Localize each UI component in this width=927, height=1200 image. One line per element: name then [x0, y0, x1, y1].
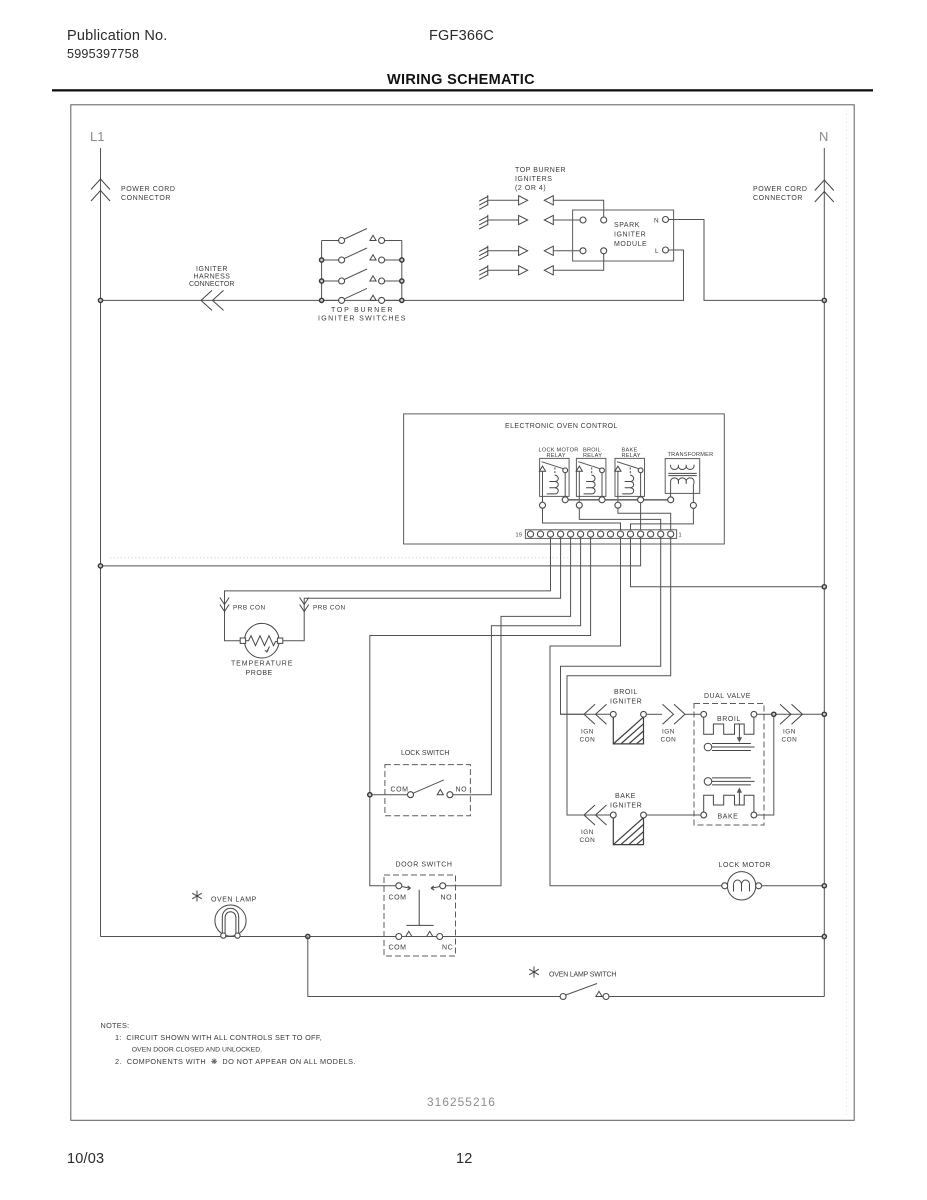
wire broil relay NO to terminal 14: [579, 508, 660, 530]
svg-text:RELAY: RELAY: [547, 453, 566, 459]
wire N bus vertical: [823, 148, 825, 997]
svg-text:NOTES:: NOTES:: [101, 1021, 130, 1030]
svg-text:CON: CON: [661, 737, 677, 744]
svg-text:LOCK SWITCH: LOCK SWITCH: [401, 750, 450, 757]
svg-text:IGNITER SWITCHES: IGNITER SWITCHES: [318, 316, 406, 323]
svg-text:IGNITER: IGNITER: [614, 232, 646, 239]
svg-text:BAKE: BAKE: [718, 814, 739, 821]
svg-text:TOP BURNER: TOP BURNER: [515, 167, 566, 174]
svg-text:IGN: IGN: [662, 729, 675, 736]
svg-text:COM: COM: [389, 945, 407, 952]
wire chevron to bake igniter: [567, 814, 610, 816]
wire lock motor to N bus: [762, 885, 825, 887]
wire broil igniter to connector: [646, 713, 662, 715]
scan artifact vertical: [846, 110, 848, 1118]
svg-text:LOCK MOTOR: LOCK MOTOR: [719, 862, 771, 869]
dual valve box: [694, 704, 764, 826]
wire terminal 15 to bake igniter row: [567, 537, 671, 815]
door switch plunger: [406, 890, 433, 926]
top burner igniter row 3: [479, 246, 580, 260]
svg-text:DOOR SWITCH: DOOR SWITCH: [396, 862, 453, 869]
broil igniter connector right: [663, 704, 686, 724]
wire bake igniter to valve: [646, 814, 700, 816]
svg-text:L1: L1: [90, 129, 104, 144]
svg-text:TOP BURNER: TOP BURNER: [331, 307, 393, 314]
wire lock relay NO to terminal 10: [543, 508, 621, 530]
svg-text:BROIL: BROIL: [614, 689, 638, 696]
probe connector right: [300, 598, 309, 612]
junction lamp line / N bus: [822, 934, 826, 938]
svg-text:SPARK: SPARK: [614, 222, 640, 229]
svg-text:ELECTRONIC OVEN CONTROL: ELECTRONIC OVEN CONTROL: [505, 423, 618, 430]
svg-text:FGF366C: FGF366C: [429, 28, 494, 44]
svg-text:TEMPERATURE: TEMPERATURE: [231, 661, 293, 668]
bake valve solenoid: [701, 787, 757, 817]
wire module N to N bus: [669, 220, 825, 301]
svg-text:1: 1: [679, 533, 682, 539]
svg-text:2. COMPONENTS WITH ❋ DO NOT: 2. COMPONENTS WITH ❋ DO NOT APPEAR ON AL…: [115, 1057, 356, 1066]
svg-text:POWER CORD: POWER CORD: [121, 186, 176, 193]
relay K1 lock motor relay: [539, 458, 569, 502]
bus terminal transformer left: [668, 497, 674, 503]
svg-text:NC: NC: [442, 945, 453, 952]
wire terminal 11 to N bus: [631, 537, 825, 587]
bus junctions of igniter switches: [320, 258, 404, 303]
wire lamp switch to N bus: [609, 996, 824, 998]
junction lamp switch tap: [306, 934, 310, 938]
wire lock switch COM to t7 riser: [370, 794, 408, 796]
svg-text:NO: NO: [456, 787, 468, 794]
svg-text:1: CIRCUIT SHOWN WITH ALL CON: 1: CIRCUIT SHOWN WITH ALL CONTROLS SET T…: [115, 1033, 322, 1042]
relay K3 bake relay: [615, 458, 645, 502]
svg-text:N: N: [654, 218, 659, 225]
switch row 3: [339, 269, 385, 284]
svg-text:IGNITERS: IGNITERS: [515, 176, 552, 183]
svg-text:PRB CON: PRB CON: [313, 605, 346, 612]
terminal broil relay NO: [576, 502, 582, 508]
svg-text:COM: COM: [391, 787, 409, 794]
wire terminal 5 to door switch NO: [446, 537, 571, 886]
svg-text:(2 OR 4): (2 OR 4): [515, 185, 546, 192]
junction lock COM: [368, 793, 372, 797]
lock switch S1: [391, 780, 468, 798]
junction lock motor / N: [822, 884, 826, 888]
wire terminal 10 to lock motor: [550, 537, 722, 886]
junction terminal12/L1: [98, 564, 102, 568]
svg-text:PROBE: PROBE: [246, 670, 273, 677]
transformer T1: [665, 459, 700, 503]
bus terminal lock relay common: [562, 497, 568, 503]
wire terminal 14 to broil igniter row: [561, 537, 661, 714]
wire lamp switch loop: [308, 937, 560, 997]
door switch lower contacts: [389, 931, 454, 951]
svg-text:WIRING SCHEMATIC: WIRING SCHEMATIC: [387, 72, 535, 88]
lock switch box: [385, 765, 471, 816]
terminal bake relay NO: [615, 502, 621, 508]
svg-text:CONNECTOR: CONNECTOR: [189, 281, 235, 288]
terminal strip: [525, 530, 676, 539]
bus terminal bake relay common: [638, 497, 644, 503]
svg-text:CONNECTOR: CONNECTOR: [753, 195, 803, 202]
top burner igniter row 4: [479, 254, 604, 279]
svg-text:OVEN LAMP: OVEN LAMP: [211, 897, 257, 904]
junction L1/main: [98, 298, 102, 302]
svg-text:RELAY: RELAY: [622, 453, 641, 459]
asterisk oven lamp switch: [529, 967, 539, 978]
wire chevron to broil igniter: [561, 713, 611, 715]
wire bus to terminal 12: [640, 503, 642, 530]
lock motor M1: [722, 872, 762, 900]
broil valve solenoid: [701, 711, 757, 742]
svg-text:IGN: IGN: [581, 729, 594, 736]
wire terminal 12 to L1 bus: [101, 537, 641, 566]
junction terminal11/N: [822, 585, 826, 589]
svg-text:5995397758: 5995397758: [67, 47, 139, 61]
oven lamp line: [101, 936, 825, 938]
probe connector left: [220, 598, 229, 612]
svg-text:CON: CON: [580, 737, 596, 744]
svg-text:N: N: [819, 129, 828, 144]
svg-text:POWER CORD: POWER CORD: [753, 186, 808, 193]
wire L1 main horizontal: [101, 250, 684, 300]
wire connector to broil valve: [685, 713, 701, 715]
bake gas outlet: [704, 778, 754, 786]
svg-text:PRB CON: PRB CON: [233, 605, 266, 612]
svg-text:IGNITER: IGNITER: [610, 803, 642, 810]
spark igniter module U1: [573, 210, 674, 261]
svg-text:MODULE: MODULE: [614, 241, 647, 248]
svg-text:TRANSFORMER: TRANSFORMER: [668, 452, 714, 458]
svg-text:COM: COM: [389, 895, 407, 902]
svg-text:316255216: 316255216: [427, 1095, 496, 1109]
svg-text:HARNESS: HARNESS: [194, 274, 231, 281]
bake igniter connector left: [584, 805, 607, 825]
svg-text:IGN: IGN: [581, 829, 594, 836]
broil igniter connector left: [584, 704, 607, 724]
svg-text:IGNITER: IGNITER: [196, 266, 228, 273]
electronic oven control box: [404, 414, 725, 544]
top burner igniter switches: [322, 241, 402, 301]
relay K2 broil relay: [576, 458, 606, 502]
terminal strip circles: [527, 531, 673, 537]
svg-text:BAKE: BAKE: [615, 793, 636, 800]
svg-text:CON: CON: [580, 837, 596, 844]
wire junction down to bake valve: [757, 716, 774, 815]
terminal transformer right: [690, 502, 696, 508]
junction valve feed: [772, 712, 776, 716]
switch row 2: [339, 248, 385, 263]
power cord connector (left): [91, 179, 110, 201]
wire bake relay NO to terminal 15: [618, 508, 671, 530]
wire L1 bus vertical: [100, 148, 102, 937]
junction N/valves: [822, 712, 826, 716]
svg-text:CON: CON: [782, 737, 798, 744]
wire terminal 7 to door switch COM: [370, 537, 591, 886]
svg-text:RELAY: RELAY: [583, 453, 602, 459]
svg-text:BROIL: BROIL: [717, 716, 741, 723]
svg-text:10/03: 10/03: [67, 1151, 104, 1167]
svg-text:CONNECTOR: CONNECTOR: [121, 195, 171, 202]
wire terminal 3 to probe left: [225, 537, 551, 641]
switch row 1: [339, 229, 385, 244]
oven lamp switch S2: [560, 984, 609, 1000]
bake igniter E2: [610, 812, 616, 818]
svg-text:OVEN LAMP SWITCH: OVEN LAMP SWITCH: [549, 972, 617, 979]
power cord connector (right): [815, 180, 834, 202]
svg-text:DUAL VALVE: DUAL VALVE: [704, 693, 751, 700]
broil gas outlet: [704, 743, 754, 751]
oven lamp DS1: [215, 905, 246, 938]
bus terminal broil relay common: [599, 497, 605, 503]
svg-text:OVEN DOOR CLOSED AND UNLOCKED.: OVEN DOOR CLOSED AND UNLOCKED.: [132, 1047, 262, 1054]
svg-text:Publication No.: Publication No.: [67, 28, 168, 44]
igniter harness connector: [201, 290, 224, 310]
switch row 4: [339, 288, 385, 303]
temperature probe RT1: [240, 623, 283, 658]
wire terminal 4 to probe right: [283, 537, 560, 641]
module pins: [580, 217, 669, 254]
title rule: [52, 89, 873, 91]
terminal lock relay NO: [540, 502, 546, 508]
top burner igniter row 2: [479, 215, 580, 229]
svg-text:IGN: IGN: [783, 729, 796, 736]
valve connector right: [780, 704, 803, 724]
wire broil valve to N bus: [757, 713, 825, 715]
door switch box: [384, 875, 456, 956]
svg-text:19: 19: [516, 533, 523, 539]
wire transformer right to terminal 11: [631, 508, 694, 530]
wire terminal 6 to lock switch NO: [453, 537, 581, 795]
junction N bus top: [822, 298, 826, 302]
scan crease dotted line: [110, 557, 570, 559]
door switch upper contacts: [389, 883, 453, 902]
asterisk oven lamp: [192, 891, 202, 902]
svg-text:NO: NO: [441, 895, 453, 902]
broil igniter E1: [610, 711, 616, 717]
EOC common bus: [565, 499, 671, 501]
schematic border: [71, 105, 854, 1121]
top burner igniter row 1: [479, 195, 604, 216]
svg-text:IGNITER: IGNITER: [610, 699, 642, 706]
svg-text:12: 12: [456, 1151, 473, 1167]
svg-text:L: L: [655, 248, 659, 255]
